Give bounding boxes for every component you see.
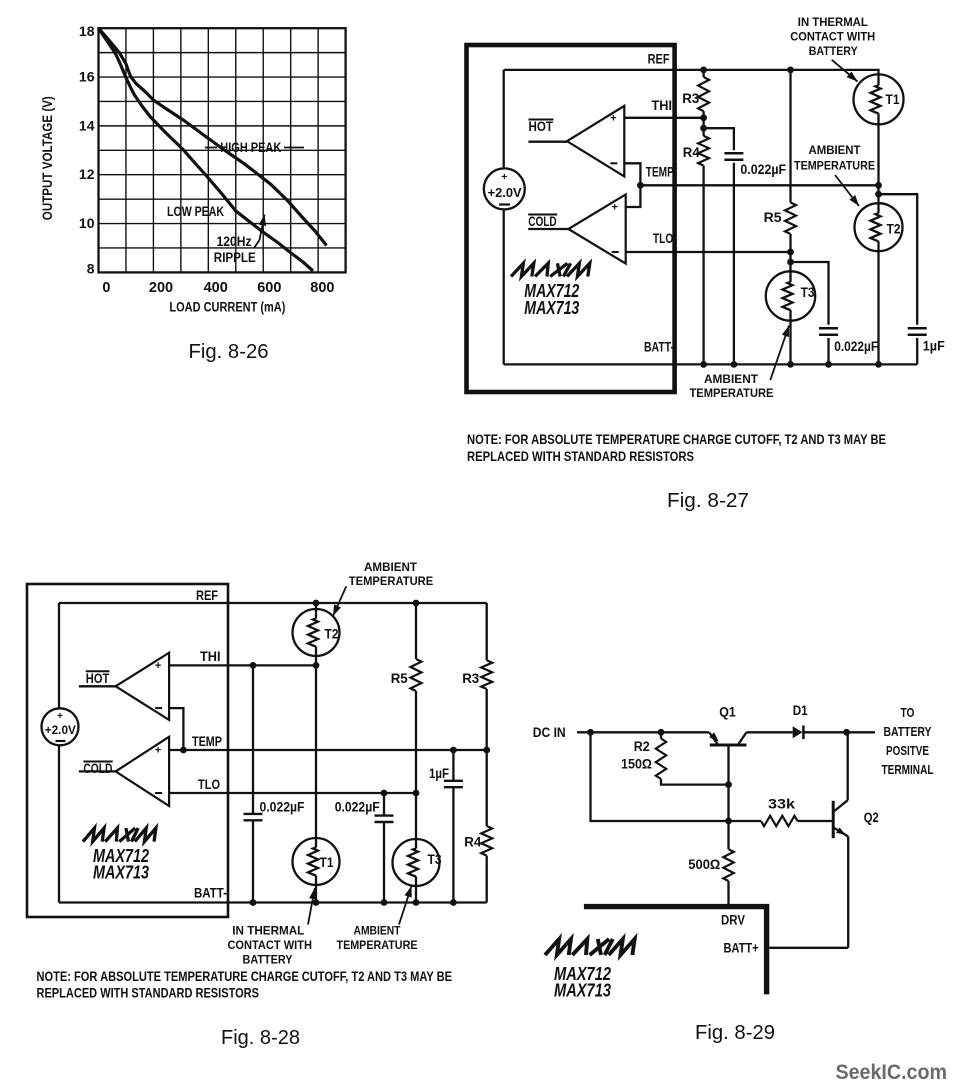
op-amp COLD comparator [116, 737, 170, 806]
voltage source +2.0V [42, 708, 79, 745]
svg-text:POSITVE: POSITVE [886, 743, 929, 758]
svg-text:Q2: Q2 [864, 810, 879, 825]
svg-text:+2.0V: +2.0V [45, 724, 76, 737]
wire T1-T2 vertical chain [877, 185, 879, 364]
svg-text:T3: T3 [428, 852, 442, 867]
node R2 branch [658, 729, 665, 736]
curve LOW PEAK [99, 28, 314, 271]
svg-text:TERMINAL: TERMINAL [882, 762, 934, 777]
capacitor 0.022uF (left) [252, 665, 254, 814]
svg-text:THI: THI [200, 648, 221, 664]
resistor R4 [702, 118, 704, 136]
svg-text:REF: REF [196, 587, 218, 603]
svg-text:RIPPLE: RIPPLE [214, 250, 256, 265]
svg-text:+: + [611, 202, 617, 214]
wire 33k to Q2 base [798, 820, 834, 822]
svg-text:D1: D1 [793, 703, 808, 718]
node TEMP junction [637, 182, 644, 189]
svg-text:0: 0 [102, 280, 110, 296]
svg-text:HIGH PEAK: HIGH PEAK [220, 140, 281, 155]
svg-text:SeekIC.com: SeekIC.com [836, 1061, 948, 1084]
svg-text:+: + [155, 745, 161, 757]
thermistor T3 [766, 271, 815, 320]
capacitor 1uF [879, 194, 918, 325]
svg-text:120Hz: 120Hz [217, 234, 252, 249]
svg-text:Fig. 8-27: Fig. 8-27 [667, 490, 749, 512]
arrow to T1 [832, 60, 858, 82]
label HIGH PEAK with leader lines [205, 147, 217, 149]
svg-text:33k: 33k [768, 797, 796, 812]
svg-text:R5: R5 [391, 670, 408, 686]
IC inner rectangle [59, 602, 228, 604]
svg-text:600: 600 [257, 280, 281, 296]
svg-text:10: 10 [79, 215, 95, 231]
svg-text:AMBIENT: AMBIENT [809, 143, 862, 157]
svg-text:TLO: TLO [198, 776, 220, 792]
svg-text:12: 12 [79, 166, 95, 182]
svg-text:+: + [501, 171, 507, 183]
y-axis tick labels 18..8 [79, 23, 95, 276]
resistors R3 R4 chain [486, 603, 488, 660]
svg-text:MAX713: MAX713 [554, 981, 611, 1001]
svg-text:T1: T1 [320, 855, 334, 870]
svg-text:Fig. 8-26: Fig. 8-26 [189, 341, 269, 363]
capacitor 0.022uF (middle) [383, 793, 385, 816]
MAXIM logo [545, 939, 635, 955]
arrow to T3 [399, 886, 412, 925]
node DC IN branch [587, 729, 594, 736]
wire BATT- rail [228, 901, 487, 903]
wire REF rail [228, 602, 487, 604]
svg-text:BATT-: BATT- [194, 885, 227, 901]
svg-text:TO: TO [901, 705, 915, 720]
resistor R2 [660, 732, 662, 738]
svg-text:TEMP: TEMP [646, 163, 674, 179]
wire THI [624, 117, 703, 119]
IC MAX712/713 outer box (Fig 8-27) [467, 45, 675, 392]
svg-text:R2: R2 [634, 739, 650, 754]
op-amp HOT comparator [567, 106, 624, 176]
svg-text:TEMPERATURE: TEMPERATURE [337, 938, 418, 952]
svg-text:0.022µF: 0.022µF [740, 162, 786, 177]
capacitor 0.022uF (upper) [704, 128, 734, 150]
svg-text:TLO: TLO [653, 230, 674, 246]
svg-text:AMBIENT: AMBIENT [354, 924, 402, 938]
wire HOT output [528, 141, 567, 143]
svg-text:+: + [57, 711, 63, 722]
wire DC IN top rail [577, 731, 709, 733]
svg-text:MAX713: MAX713 [93, 863, 149, 883]
voltage source +2.0V [484, 168, 525, 209]
graph grid Fig 8-26 [99, 28, 346, 272]
arrow to T3 [770, 326, 789, 381]
svg-text:NOTE: FOR ABSOLUTE TEMPERATURE: NOTE: FOR ABSOLUTE TEMPERATURE CHARGE CU… [467, 432, 886, 447]
svg-text:AMBIENT: AMBIENT [364, 560, 418, 574]
arrow to T2 [333, 586, 346, 616]
svg-text:R5: R5 [764, 209, 782, 225]
thermistor T3 [393, 839, 440, 886]
wire BATT+ [769, 947, 848, 949]
node Q1 base / R2 junction [725, 781, 732, 788]
svg-text:REPLACED WITH STANDARD RESISTO: REPLACED WITH STANDARD RESISTORS [37, 986, 260, 1001]
svg-text:LOW PEAK: LOW PEAK [167, 204, 224, 219]
svg-text:AMBIENT: AMBIENT [704, 372, 759, 386]
wire D1 to battery terminal [803, 731, 875, 733]
svg-text:1µF: 1µF [429, 766, 449, 781]
wire Q1 collector to D1 [747, 731, 793, 733]
svg-text:REPLACED WITH STANDARD RESISTO: REPLACED WITH STANDARD RESISTORS [467, 449, 694, 464]
IC MAX712/713 outer box (Fig 8-28) [27, 584, 228, 917]
svg-text:Q1: Q1 [719, 705, 736, 720]
curve HIGH PEAK [99, 28, 327, 245]
svg-text:R4: R4 [683, 144, 700, 160]
svg-text:CONTACT WITH: CONTACT WITH [790, 30, 875, 44]
svg-text:0.022µF: 0.022µF [834, 339, 878, 354]
IC corner thick DRV/BATT+ rail [584, 907, 767, 995]
svg-text:BATT-: BATT- [644, 339, 674, 355]
svg-text:14: 14 [79, 117, 95, 133]
svg-text:TEMP: TEMP [192, 733, 222, 749]
svg-text:DRV: DRV [721, 913, 745, 928]
svg-text:500Ω: 500Ω [688, 857, 720, 872]
wire TLO [626, 251, 791, 253]
thermistor T2 [293, 609, 340, 656]
svg-text:HOT: HOT [86, 670, 110, 686]
op-amp COLD comparator [568, 194, 625, 263]
svg-text:Fig. 8-28: Fig. 8-28 [221, 1027, 300, 1049]
svg-text:R4: R4 [464, 833, 481, 849]
wire THI [169, 664, 316, 666]
transistor Q2 (NPN) [832, 801, 835, 838]
svg-text:8: 8 [87, 260, 95, 276]
wire Q1 base down [727, 785, 729, 850]
svg-text:T2: T2 [887, 222, 901, 237]
svg-text:OUTPUT VOLTAGE (V): OUTPUT VOLTAGE (V) [40, 96, 55, 220]
resistor 33k [761, 816, 798, 826]
node Q2 collector junction [843, 729, 850, 736]
resistor R5 [789, 70, 791, 203]
svg-text:0.022µF: 0.022µF [260, 800, 305, 815]
graph axis frame [99, 28, 346, 272]
x-axis tick labels 0..800 [102, 280, 334, 296]
svg-text:T1: T1 [886, 92, 900, 107]
wire HOT minus jog to TEMP [169, 708, 183, 750]
capacitor 1uF [452, 750, 454, 781]
arrow to T2 [835, 175, 859, 206]
svg-text:TEMPERATURE: TEMPERATURE [690, 386, 774, 400]
thermistor T1 [854, 74, 904, 124]
wire TEMP [640, 184, 878, 186]
node 33k junction [725, 818, 732, 825]
svg-text:REF: REF [648, 51, 670, 67]
wire left branch down to 33k [591, 732, 762, 821]
svg-text:NOTE: FOR ABSOLUTE TEMPERATURE: NOTE: FOR ABSOLUTE TEMPERATURE CHARGE CU… [37, 969, 453, 984]
svg-text:T2: T2 [325, 627, 339, 642]
svg-text:LOAD CURRENT (mA): LOAD CURRENT (mA) [169, 300, 285, 315]
svg-text:Fig. 8-29: Fig. 8-29 [695, 1022, 775, 1044]
svg-text:BATTERY: BATTERY [243, 953, 293, 967]
resistor 500 ohm [723, 849, 733, 881]
svg-text:T3: T3 [801, 285, 815, 300]
svg-text:0.022µF: 0.022µF [335, 800, 380, 815]
capacitor 0.022uF (lower) [791, 262, 829, 325]
svg-text:IN THERMAL: IN THERMAL [232, 924, 304, 938]
wire BATT- rail [675, 363, 918, 365]
svg-text:150Ω: 150Ω [621, 757, 652, 772]
svg-text:800: 800 [310, 280, 334, 296]
node THI/R3/R4 junction [700, 114, 707, 121]
svg-text:BATTERY: BATTERY [809, 44, 858, 58]
svg-text:R3: R3 [462, 670, 479, 686]
svg-text:BATTERY: BATTERY [884, 724, 932, 739]
op-amp HOT comparator [116, 653, 170, 720]
svg-text:BATT+: BATT+ [724, 941, 759, 956]
MAXIM logo [511, 263, 590, 276]
resistor R3 [702, 70, 704, 77]
IC inner rectangle [504, 69, 675, 71]
svg-text:IN THERMAL: IN THERMAL [798, 15, 868, 29]
svg-text:200: 200 [149, 280, 173, 296]
wire TEMP [169, 749, 487, 751]
wire HOT minus jog to TEMP [624, 163, 640, 207]
thermistor T2 [855, 203, 903, 251]
wire COLD output [79, 770, 116, 772]
svg-text:+: + [155, 660, 161, 672]
MAXIM logo [83, 828, 156, 842]
thermistor T1 [293, 838, 340, 885]
resistor R5 and thermistor T3 chain [415, 603, 417, 659]
svg-text:16: 16 [79, 69, 95, 85]
svg-text:TEMPERATURE: TEMPERATURE [794, 159, 875, 173]
svg-text:CONTACT WITH: CONTACT WITH [227, 938, 312, 952]
arrow 120Hz ripple pointing between curves [254, 240, 260, 248]
diode D1 [793, 726, 803, 738]
wire TLO [169, 792, 416, 794]
arrow to T1 [308, 888, 315, 925]
transistor Q1 (PNP) [710, 744, 747, 747]
svg-text:DC IN: DC IN [533, 725, 566, 740]
svg-text:THI: THI [652, 97, 673, 113]
wire COLD output [528, 228, 568, 230]
svg-text:+2.0V: +2.0V [488, 185, 522, 200]
svg-text:400: 400 [204, 280, 228, 296]
svg-text:R3: R3 [682, 90, 699, 106]
wire T2-T1 vertical chain [315, 603, 317, 903]
svg-text:18: 18 [79, 23, 95, 39]
svg-text:MAX713: MAX713 [524, 298, 579, 318]
svg-text:1µF: 1µF [923, 339, 945, 354]
wire HOT output [79, 685, 116, 687]
wire REF rail to T1 [675, 70, 879, 185]
svg-text:TEMPERATURE: TEMPERATURE [349, 574, 434, 588]
svg-text:+: + [610, 112, 616, 124]
